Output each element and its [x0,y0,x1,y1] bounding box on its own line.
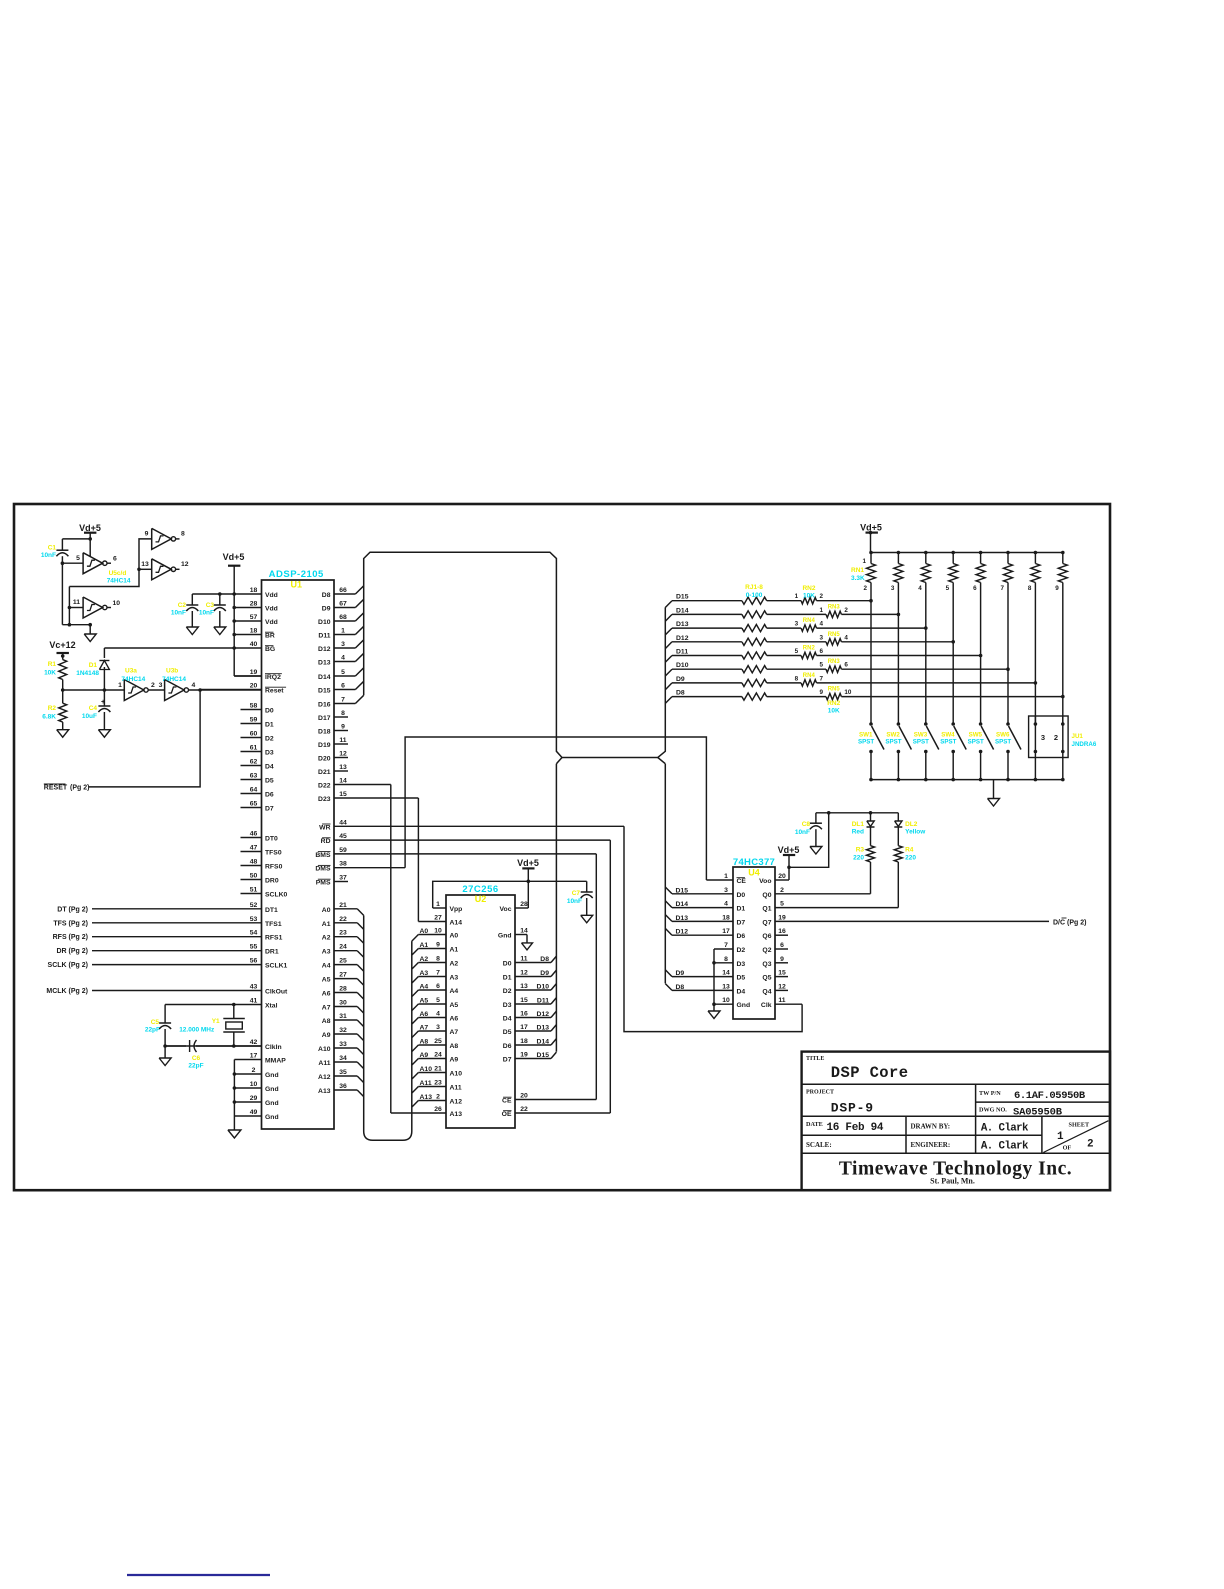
svg-text:D10: D10 [676,662,689,669]
svg-text:SA05950B: SA05950B [1013,1107,1063,1119]
svg-text:D12: D12 [537,1011,550,1018]
svg-text:16 Feb 94: 16 Feb 94 [827,1122,884,1134]
svg-text:D2: D2 [503,988,512,995]
svg-text:20: 20 [250,683,258,690]
svg-text:23: 23 [434,1080,442,1087]
svg-text:A6: A6 [322,991,331,998]
svg-text:A2: A2 [322,935,331,942]
svg-text:Yellow: Yellow [905,829,926,836]
svg-text:A5: A5 [322,977,331,984]
svg-text:D13: D13 [537,1025,550,1032]
svg-text:62: 62 [250,759,258,766]
svg-text:40: 40 [250,641,258,648]
svg-text:8: 8 [181,531,185,538]
svg-text:Q7: Q7 [762,919,771,926]
svg-text:A. Clark: A. Clark [981,1123,1029,1135]
svg-text:1: 1 [819,607,823,614]
svg-text:A3: A3 [420,970,429,977]
svg-text:D8: D8 [676,984,685,991]
svg-text:D15: D15 [318,688,331,695]
svg-text:D5: D5 [265,778,274,785]
svg-text:D13: D13 [318,660,331,667]
svg-text:RN3: RN3 [828,604,841,610]
svg-text:28: 28 [339,986,347,993]
svg-text:3.3K: 3.3K [851,575,865,582]
svg-text:RJ1-8: RJ1-8 [745,584,763,591]
svg-text:A11: A11 [450,1085,462,1092]
svg-text:A13: A13 [420,1094,433,1101]
svg-text:59: 59 [250,717,258,724]
svg-text:6: 6 [341,683,345,690]
svg-text:D0: D0 [265,708,274,715]
svg-text:20: 20 [520,1093,528,1100]
svg-text:Vdd: Vdd [265,619,278,626]
svg-text:U1: U1 [290,580,302,590]
svg-text:D10: D10 [537,984,550,991]
svg-text:D16: D16 [318,702,331,709]
svg-text:RESET: RESET [44,785,68,792]
svg-text:A3: A3 [322,949,331,956]
svg-text:1: 1 [724,873,728,880]
svg-text:D2: D2 [265,736,274,743]
svg-text:12: 12 [520,970,528,977]
svg-text:59: 59 [339,847,347,854]
svg-text:3: 3 [819,634,823,641]
svg-text:RN5: RN5 [828,687,841,693]
svg-text:RFS0: RFS0 [265,864,283,871]
svg-text:U3b: U3b [166,668,178,675]
svg-text:20: 20 [778,873,786,880]
svg-text:28: 28 [520,901,528,908]
svg-text:PROJECT: PROJECT [806,1090,834,1096]
svg-text:Vd+5: Vd+5 [517,858,539,868]
svg-text:D1: D1 [89,662,98,669]
svg-text:3: 3 [724,887,728,894]
svg-text:Q0: Q0 [762,892,771,899]
svg-text:2: 2 [780,887,784,894]
svg-text:D21: D21 [318,769,331,776]
svg-text:220: 220 [853,855,864,862]
svg-text:D0: D0 [737,892,746,899]
svg-text:SPST: SPST [858,739,874,746]
svg-text:D7: D7 [265,806,274,813]
svg-text:12: 12 [181,561,189,568]
svg-text:25: 25 [434,1038,442,1045]
svg-text:22pF: 22pF [188,1063,203,1070]
svg-text:D15: D15 [676,594,689,601]
svg-text:3: 3 [1041,733,1045,742]
svg-text:D13: D13 [676,621,689,628]
svg-text:67: 67 [339,601,347,608]
svg-text:16: 16 [520,1011,528,1018]
svg-text:D14: D14 [318,674,331,681]
svg-text:42: 42 [250,1039,258,1046]
svg-text:5: 5 [436,997,440,1004]
svg-text:SPST: SPST [885,739,901,746]
svg-text:A0: A0 [322,907,331,914]
svg-text:61: 61 [250,745,258,752]
svg-text:10: 10 [113,600,121,607]
svg-text:10nF: 10nF [199,610,214,617]
svg-text:D8: D8 [676,690,685,697]
svg-text:D20: D20 [318,756,331,763]
svg-text:ENGINEER:: ENGINEER: [911,1141,951,1149]
svg-text:8: 8 [795,675,799,682]
svg-text:4: 4 [341,655,345,662]
svg-text:2: 2 [436,1094,440,1101]
svg-text:U2: U2 [475,894,487,904]
svg-text:2: 2 [151,682,155,689]
svg-text:1: 1 [118,682,122,689]
svg-text:4: 4 [918,585,922,592]
svg-text:Vpp: Vpp [450,906,463,913]
svg-text:A7: A7 [322,1005,331,1012]
svg-text:10nF: 10nF [567,898,582,905]
svg-text:17: 17 [520,1024,528,1031]
svg-text:C2: C2 [178,602,187,609]
svg-text:TFS0: TFS0 [265,850,282,857]
svg-text:U3a: U3a [125,668,137,675]
svg-text:6: 6 [820,648,824,655]
svg-text:A5: A5 [450,1002,459,1009]
svg-text:C4: C4 [89,705,98,712]
svg-text:D11: D11 [318,633,330,640]
svg-text:D14: D14 [676,607,689,614]
svg-text:SCLK1: SCLK1 [265,963,288,970]
svg-text:4: 4 [724,901,728,908]
svg-text:D22: D22 [318,783,331,790]
svg-text:3: 3 [436,1024,440,1031]
svg-text:A0: A0 [450,933,459,940]
svg-text:D6: D6 [265,792,274,799]
svg-text:A7: A7 [420,1025,429,1032]
svg-text:D18: D18 [318,729,331,736]
svg-text:4: 4 [436,1011,440,1018]
svg-text:Vc+12: Vc+12 [49,640,75,650]
svg-text:8: 8 [1028,585,1032,592]
svg-text:31: 31 [339,1013,347,1020]
svg-text:7: 7 [341,697,345,704]
svg-text:1: 1 [341,628,345,635]
svg-text:Vd+5: Vd+5 [778,845,800,855]
svg-text:9: 9 [1055,585,1059,592]
svg-text:SPST: SPST [913,739,929,746]
svg-text:65: 65 [250,801,258,808]
svg-text:D5: D5 [503,1029,512,1036]
svg-text:RN2: RN2 [827,700,840,707]
svg-text:10uF: 10uF [82,713,97,720]
svg-text:RFS1: RFS1 [265,935,283,942]
svg-text:Q1: Q1 [762,906,771,913]
svg-text:14: 14 [722,970,730,977]
svg-text:BMS: BMS [315,852,331,859]
svg-text:30: 30 [339,1000,347,1007]
svg-text:D4: D4 [503,1016,512,1023]
svg-text:SW1: SW1 [859,732,873,739]
svg-text:Vd+5: Vd+5 [223,552,245,562]
svg-text:IRQ2: IRQ2 [265,674,281,681]
svg-text:DT0: DT0 [265,836,278,843]
svg-text:ClkIn: ClkIn [265,1044,282,1051]
svg-text:44: 44 [339,819,347,826]
svg-text:Gnd: Gnd [265,1114,279,1121]
svg-text:D15: D15 [537,1052,550,1059]
svg-text:D1: D1 [265,722,274,729]
svg-text:6.8K: 6.8K [42,714,56,721]
svg-text:A. Clark: A. Clark [981,1141,1029,1153]
svg-text:14: 14 [520,928,528,935]
svg-text:D19: D19 [318,742,331,749]
svg-text:21: 21 [339,902,347,909]
svg-text:C6: C6 [192,1055,201,1062]
svg-text:11: 11 [339,737,346,744]
svg-text:A1: A1 [420,942,429,949]
svg-text:22: 22 [520,1106,528,1113]
svg-text:TITLE: TITLE [806,1056,824,1062]
svg-text:21: 21 [434,1066,442,1073]
svg-text:D5: D5 [737,975,746,982]
svg-text:Reset: Reset [265,688,284,695]
svg-text:Q3: Q3 [762,961,771,968]
svg-text:3: 3 [891,585,895,592]
svg-text:SHEET: SHEET [1069,1122,1091,1129]
svg-text:A6: A6 [420,1011,429,1018]
svg-text:A7: A7 [450,1029,459,1036]
svg-text:3: 3 [341,641,345,648]
svg-text:C7: C7 [572,890,581,897]
svg-text:60: 60 [250,731,258,738]
svg-text:TFS (Pg 2): TFS (Pg 2) [53,920,88,927]
svg-text:D3: D3 [265,750,274,757]
svg-text:Gnd: Gnd [265,1086,279,1093]
svg-text:D11: D11 [537,998,549,1005]
svg-text:A3: A3 [450,975,459,982]
svg-text:19: 19 [250,669,258,676]
svg-text:68: 68 [339,614,347,621]
svg-text:64: 64 [250,787,258,794]
svg-text:1: 1 [862,558,866,565]
svg-text:8: 8 [341,710,345,717]
svg-text:14: 14 [339,778,347,785]
svg-text:36: 36 [339,1083,347,1090]
svg-text:1: 1 [436,901,440,908]
svg-text:DWG NO.: DWG NO. [979,1107,1007,1114]
svg-text:24: 24 [339,944,347,951]
svg-text:A8: A8 [322,1018,331,1025]
svg-text:8: 8 [724,956,728,963]
svg-text:D6: D6 [737,933,746,940]
svg-text:CE: CE [502,1098,512,1105]
svg-text:15: 15 [520,997,528,1004]
svg-text:2: 2 [820,593,824,600]
svg-text:37: 37 [339,875,347,882]
svg-text:33: 33 [339,1041,347,1048]
svg-text:2: 2 [863,585,867,592]
svg-text:TW P/N: TW P/N [979,1090,1001,1097]
svg-text:2: 2 [1087,1139,1094,1151]
svg-text:Clk: Clk [761,1002,772,1009]
svg-text:SW2: SW2 [886,732,900,739]
svg-text:D23: D23 [318,796,331,803]
svg-text:RFS (Pg 2): RFS (Pg 2) [53,934,88,941]
svg-text:3: 3 [159,682,163,689]
svg-text:RN3: RN3 [828,659,841,665]
svg-text:A6: A6 [450,1016,459,1023]
svg-text:11: 11 [73,599,80,606]
svg-text:Q5: Q5 [762,975,771,982]
svg-text:17: 17 [722,928,730,935]
svg-text:RN2: RN2 [803,646,816,652]
svg-text:DR1: DR1 [265,949,279,956]
svg-text:D4: D4 [737,988,746,995]
svg-text:15: 15 [778,970,786,977]
svg-text:7: 7 [724,942,728,949]
svg-text:D12: D12 [676,929,689,936]
svg-text:5: 5 [819,662,823,669]
svg-text:A0: A0 [420,928,429,935]
svg-text:SPST: SPST [968,739,984,746]
svg-text:23: 23 [339,930,347,937]
svg-text:Voo: Voo [759,878,771,885]
svg-text:A8: A8 [450,1043,459,1050]
svg-text:66: 66 [339,587,347,594]
svg-text:D14: D14 [676,901,689,908]
svg-text:A10: A10 [318,1046,331,1053]
svg-text:Q4: Q4 [762,988,771,995]
svg-text:D2: D2 [737,947,746,954]
svg-text:D9: D9 [540,970,549,977]
svg-text:MMAP: MMAP [265,1058,286,1065]
svg-text:D13: D13 [676,915,689,922]
svg-text:12.000 MHz: 12.000 MHz [179,1027,215,1034]
svg-text:Red: Red [852,829,864,836]
svg-text:Gnd: Gnd [737,1002,751,1009]
svg-text:D7: D7 [503,1057,512,1064]
svg-text:43: 43 [250,984,258,991]
svg-text:74HC14: 74HC14 [107,578,131,585]
svg-text:Q6: Q6 [762,933,771,940]
svg-text:DRAWN BY:: DRAWN BY: [911,1123,951,1131]
svg-text:D0: D0 [503,961,512,968]
svg-text:9: 9 [780,956,784,963]
svg-text:11: 11 [520,956,527,963]
svg-text:6: 6 [973,585,977,592]
svg-text:A13: A13 [318,1088,331,1095]
svg-text:BR: BR [265,633,275,640]
svg-text:22pF: 22pF [145,1027,160,1034]
svg-text:A1: A1 [322,921,331,928]
svg-text:17: 17 [250,1053,258,1060]
svg-text:Vdd: Vdd [265,592,278,599]
svg-text:+: + [101,699,105,706]
svg-text:D6: D6 [503,1043,512,1050]
svg-text:DL2: DL2 [905,821,918,828]
svg-text:RN1: RN1 [851,567,864,574]
svg-text:51: 51 [250,887,258,894]
svg-text:27: 27 [339,972,347,979]
svg-text:WR: WR [319,824,330,831]
svg-text:1N4148: 1N4148 [76,670,99,677]
svg-text:A2: A2 [450,961,459,968]
svg-text:DATE: DATE [806,1121,823,1128]
svg-text:22: 22 [339,916,347,923]
svg-text:5: 5 [795,648,799,655]
svg-text:6: 6 [436,983,440,990]
svg-text:18: 18 [250,628,258,635]
svg-text:1: 1 [1057,1131,1064,1143]
svg-text:RD: RD [321,838,331,845]
svg-text:32: 32 [339,1027,347,1034]
svg-text:SW5: SW5 [969,732,983,739]
svg-text:A10: A10 [420,1066,433,1073]
svg-text:D15: D15 [676,887,689,894]
svg-text:18: 18 [250,587,258,594]
svg-text:D8: D8 [540,956,549,963]
svg-text:Gnd: Gnd [498,933,512,940]
svg-text:DL1: DL1 [852,821,865,828]
svg-text:25: 25 [339,958,347,965]
svg-text:SW4: SW4 [941,732,955,739]
svg-text:D11: D11 [676,649,688,656]
svg-text:10: 10 [844,689,852,696]
svg-text:A9: A9 [322,1032,331,1039]
svg-text:35: 35 [339,1069,347,1076]
svg-text:D3: D3 [737,961,746,968]
svg-text:DR0: DR0 [265,878,279,885]
svg-text:A9: A9 [420,1052,429,1059]
svg-text:52: 52 [250,902,258,909]
svg-text:A10: A10 [450,1071,463,1078]
svg-text:DSP Core: DSP Core [831,1064,909,1082]
svg-text:13: 13 [520,983,528,990]
svg-text:57: 57 [250,614,258,621]
svg-text:49: 49 [250,1109,258,1116]
svg-text:Vdd: Vdd [265,606,278,613]
svg-text:19: 19 [778,914,786,921]
svg-text:Vd+5: Vd+5 [79,523,101,533]
svg-text:41: 41 [250,998,258,1005]
svg-text:54: 54 [250,930,258,937]
svg-text:10nF: 10nF [171,610,186,617]
svg-text:7: 7 [436,970,440,977]
svg-text:10: 10 [434,928,442,935]
svg-text:DSP-9: DSP-9 [831,1101,874,1116]
svg-text:19: 19 [520,1052,528,1059]
svg-text:10: 10 [250,1081,258,1088]
svg-text:0-100: 0-100 [746,592,763,599]
svg-text:D12: D12 [318,646,331,653]
svg-text:27: 27 [434,915,442,922]
svg-text:A5: A5 [420,998,429,1005]
svg-text:58: 58 [250,703,258,710]
svg-text:10K: 10K [828,708,840,715]
svg-text:47: 47 [250,845,258,852]
svg-text:Xtal: Xtal [265,1003,278,1010]
svg-text:10K: 10K [44,670,56,677]
svg-text:9: 9 [436,942,440,949]
svg-text:JU1: JU1 [1072,733,1084,740]
svg-text:11: 11 [778,997,785,1004]
svg-text:ClkOut: ClkOut [265,989,288,996]
svg-text:St. Paul, Mn.: St. Paul, Mn. [930,1177,975,1186]
svg-text:A13: A13 [450,1111,463,1118]
svg-text:10nF: 10nF [795,829,810,836]
svg-text:74HC14: 74HC14 [121,676,145,683]
svg-text:220: 220 [905,855,916,862]
svg-text:OE: OE [502,1111,512,1118]
svg-text:D9: D9 [322,606,331,613]
svg-text:D8: D8 [322,592,331,599]
